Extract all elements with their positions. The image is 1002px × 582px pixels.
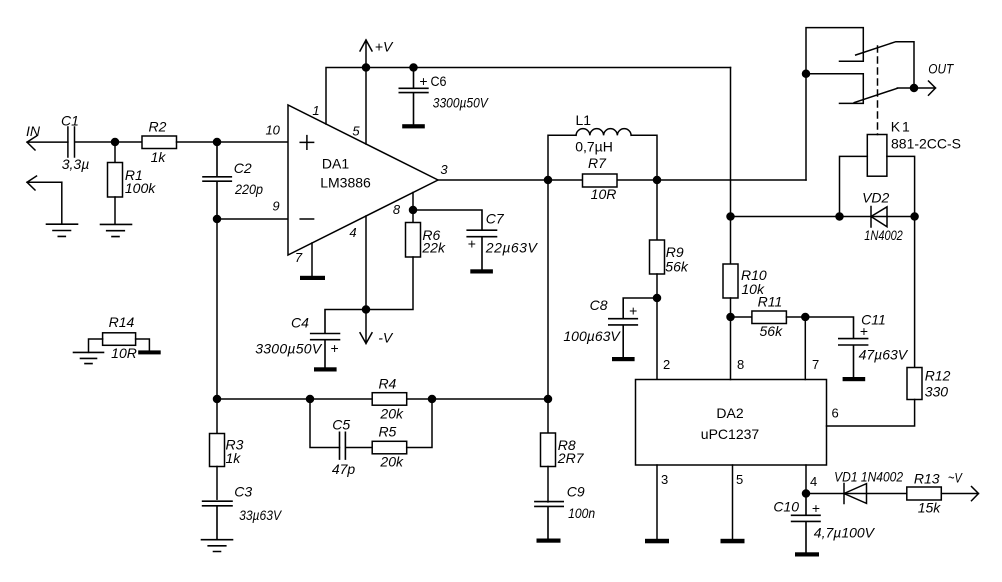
svg-text:20k: 20k [379,406,404,422]
svg-text:3,3µ: 3,3µ [62,156,90,172]
svg-text:4: 4 [349,225,356,240]
resistor R13 [907,487,942,500]
resistor R11 [731,311,806,324]
wire pin7 DA2 [804,317,806,380]
relay coil rail wire [731,216,915,218]
node rail coil left [836,213,843,220]
svg-text:220p: 220p [234,181,263,197]
wire pin5 [365,68,367,145]
relay contact common wire [806,28,863,180]
svg-text:OUT: OUT [928,61,954,77]
svg-text:+: + [629,303,637,319]
op-amp DA1 triangle [288,105,438,255]
svg-text:C5: C5 [332,417,350,433]
wire pin4 DA2 [805,465,807,494]
svg-text:+V: +V [375,39,394,55]
svg-text:56k: 56k [760,323,784,339]
node OUT junction [911,85,918,92]
relay K1 coil [867,135,887,177]
svg-text:3: 3 [440,162,448,177]
svg-text:1k: 1k [226,450,242,466]
svg-text:-V: -V [378,330,394,346]
svg-text:DA1: DA1 [322,156,349,172]
capacitor C9 [535,502,563,539]
svg-text:2R7: 2R7 [557,450,585,466]
node rail R8 [545,396,552,403]
ground bar C8 [612,357,635,361]
svg-text:1k: 1k [151,149,167,165]
wire pin8 stub [412,193,414,223]
svg-text:+: + [812,500,820,516]
node junction pin9 [214,216,221,223]
svg-text:5: 5 [352,124,360,139]
ground shield [47,224,78,236]
node A junction C1/R1/R2 [112,139,119,146]
svg-text:C7: C7 [486,211,505,227]
svg-text:C6: C6 [431,73,447,89]
wire R1-node to R2 [115,141,142,143]
svg-text:33µ63V: 33µ63V [239,507,282,523]
capacitor C8 [609,298,657,357]
svg-text:4: 4 [810,474,817,489]
node -V junction [363,306,370,313]
resistor R12 [907,368,922,400]
svg-text:6: 6 [832,405,839,420]
capacitor C4 [311,310,366,368]
svg-text:100n: 100n [568,505,595,521]
wire pin4 to VD1 [806,493,867,495]
wire coil left [840,156,868,216]
wire coil right [887,156,915,216]
svg-text:R4: R4 [378,375,396,391]
node junction C2 top [214,139,221,146]
op-amp minus input mark [300,218,313,220]
node C6 junction [410,64,417,71]
ground bar C7 [470,269,493,273]
op-amp plus input mark [300,136,313,150]
wire R2 to pin10 [177,141,289,143]
capacitor C7 [413,210,497,269]
resistor R6 [366,223,421,310]
ground bar C4 [314,367,337,371]
svg-text:C9: C9 [567,484,585,500]
svg-text:+: + [468,236,476,252]
svg-text:C4: C4 [291,315,309,331]
node R11 left junction [727,314,734,321]
svg-text:~V: ~V [948,470,963,486]
svg-text:C8: C8 [590,297,608,313]
svg-text:2: 2 [663,357,670,372]
svg-text:3: 3 [661,472,668,487]
svg-text:9: 9 [272,199,279,214]
resistor R7 [583,174,618,187]
capacitor C5 [340,432,373,459]
resistor R5 [372,399,432,454]
wire C5 branch down [310,399,340,448]
node rail left [214,396,221,403]
svg-text:100k: 100k [125,180,156,196]
ground bar pin7 [300,276,325,280]
relay dashed link [877,46,879,135]
svg-text:1: 1 [312,103,319,118]
svg-text:C10: C10 [773,499,799,515]
ground bar C10 [795,552,819,556]
resistor R10 [723,217,738,318]
svg-text:+: + [419,73,427,89]
node IN input arrow [27,136,68,150]
node rail R4 right [429,396,436,403]
resistor R3 [210,399,225,499]
svg-text:22µ63V: 22µ63V [485,240,539,256]
wire coil right to R12 [914,217,916,368]
svg-text:56k: 56k [665,259,689,275]
svg-text:1N4002: 1N4002 [864,227,903,243]
svg-text:47µ63V: 47µ63V [859,347,909,363]
svg-text:8: 8 [393,202,401,217]
node pin4 junction [803,490,810,497]
node C8 junction [654,295,661,302]
svg-text:R12: R12 [925,368,951,384]
node R11 right junction [802,314,809,321]
svg-text:C2: C2 [234,160,252,176]
relay contact 2 fixed [806,74,863,104]
inductor L1 [548,129,657,180]
wire pin9 [217,218,288,220]
node +V junction [363,64,370,71]
node output junction L1 [545,177,552,184]
svg-text:3300µ50V: 3300µ50V [255,341,323,357]
ground bar R14 right [138,350,161,354]
svg-text:10: 10 [265,122,280,137]
ground under R14 left [74,352,104,363]
svg-text:47p: 47p [332,461,356,477]
wire pin6 DA2 [827,400,915,427]
ground bar C11 [843,377,866,381]
wire pin2 DA2 [656,298,658,380]
wire VD1 to R13 [867,493,907,495]
capacitor C2 [203,142,231,219]
svg-text:+: + [331,340,339,356]
svg-text:8: 8 [737,357,744,372]
node input shield arrow [27,176,62,190]
IC DA2 uPC1237 box [636,380,827,466]
ground bar C9 [537,539,561,543]
wire shield to ground [61,182,63,224]
wire pin5 DA2 [732,465,734,539]
diode VD1 [844,484,867,504]
svg-text:100µ63V: 100µ63V [563,328,621,344]
svg-text:L1: L1 [576,112,592,128]
wire pin8 DA2 [730,317,732,380]
wire R14 right to bar [136,339,150,350]
wire output pin3 [438,179,806,181]
svg-text:7: 7 [812,357,819,372]
capacitor C1 [68,127,115,157]
svg-text:+: + [860,323,868,339]
svg-text:C3: C3 [234,484,252,500]
ground bar C6 [402,124,425,128]
svg-text:LM3886: LM3886 [320,175,371,191]
svg-text:10R: 10R [591,186,617,202]
node rail R10 [727,213,734,220]
node rail C5 branch [307,396,314,403]
power -V arrow [360,310,372,344]
svg-text:C1: C1 [61,113,79,129]
wire pin3 DA2 [656,465,658,539]
wire OUT with arrow [897,81,935,95]
resistor R9 [650,180,665,298]
svg-text:330: 330 [925,384,949,400]
resistor R1 [108,142,123,224]
resistor R8 [541,180,556,502]
power +V arrow [360,40,372,68]
wire +V to relay rail vertical [730,68,732,217]
node rail coil right [911,213,918,220]
svg-text:uPC1237: uPC1237 [701,426,760,442]
svg-text:10R: 10R [111,345,137,361]
svg-text:0,7µH: 0,7µH [575,139,613,155]
svg-text:R11: R11 [758,294,783,310]
svg-text:R7: R7 [588,155,607,171]
svg-text:20k: 20k [379,454,404,470]
capacitor C10 [792,494,820,553]
svg-text:VD2: VD2 [862,190,889,206]
node pin8 junction [410,207,417,214]
svg-text:DA2: DA2 [716,405,743,421]
svg-text:5: 5 [736,472,743,487]
ground bar pin3 [645,539,669,544]
relay contact 2 arm [854,88,897,102]
resistor R2 [142,136,177,149]
wire R13 to ~V arrow [941,487,978,501]
resistor R14 [103,333,136,346]
svg-text:3300µ50V: 3300µ50V [433,95,489,111]
wire pin7 [311,243,313,276]
svg-text:22k: 22k [421,240,446,256]
svg-text:15k: 15k [918,500,942,516]
svg-text:R5: R5 [378,423,396,439]
node relay common junction [803,70,810,77]
capacitor C6 [399,68,428,125]
node output junction R9 [654,177,661,184]
svg-text:IN: IN [26,123,41,139]
capacitor C11 [805,317,867,377]
resistor R4 [372,393,407,406]
wire C2 down to feedback rail [216,219,218,399]
wire pin4 [365,216,367,310]
svg-text:R13: R13 [914,471,940,487]
ground under R1 [101,224,132,236]
svg-text:881-2CC-S: 881-2CC-S [891,136,961,152]
svg-text:VD1 1N4002: VD1 1N4002 [834,469,903,485]
ground bar pin5 [721,539,745,544]
wire pin1 to +V rail [326,68,731,125]
diode VD2 [871,207,887,228]
relay contact 1 arm [856,42,914,88]
svg-text:4,7µ100V: 4,7µ100V [814,525,876,541]
svg-text:7: 7 [295,250,303,265]
ground under C3 [202,540,233,552]
feedback rail wire [217,398,548,400]
wire R14 left to ground [89,339,103,352]
capacitor C3 [203,501,232,539]
svg-text:R14: R14 [109,314,135,330]
svg-text:R2: R2 [149,118,167,134]
